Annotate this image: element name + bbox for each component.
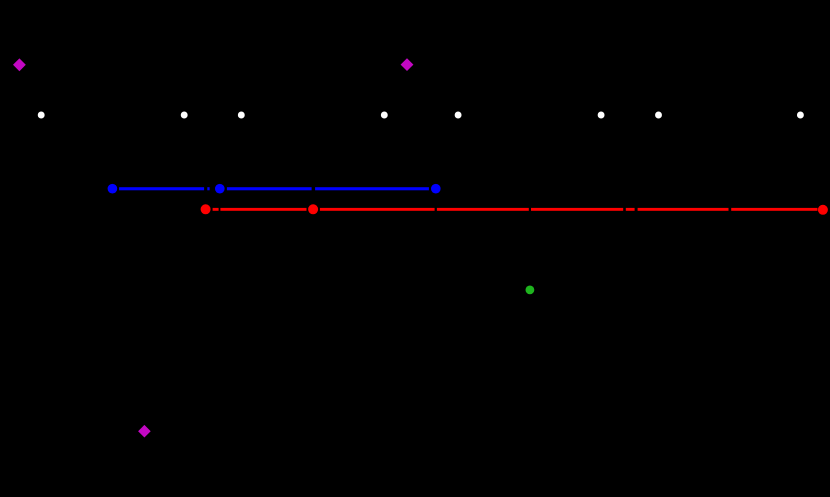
magenta diamond marker D2 top-middle bbox=[401, 58, 414, 71]
blue line segment B-c bbox=[227, 187, 312, 190]
blue endpoint dot B2 bbox=[215, 184, 225, 194]
white dot W1 bbox=[38, 112, 45, 119]
magenta diamond marker D3 bottom-left bbox=[138, 425, 151, 438]
red line segment R-d bbox=[437, 208, 529, 211]
red line segment R-g bbox=[638, 208, 729, 211]
blue line segment B-d bbox=[315, 187, 429, 190]
white dot W8 bbox=[797, 112, 804, 119]
white dot W3 bbox=[238, 112, 245, 119]
red endpoint dot R1 bbox=[201, 204, 211, 214]
red endpoint dot R2 bbox=[308, 204, 318, 214]
red endpoint dot R3 bbox=[818, 205, 828, 215]
red line segment R-h bbox=[731, 208, 817, 211]
red line segment R-e bbox=[531, 208, 623, 211]
blue line segment B-a bbox=[119, 187, 204, 190]
white dot W7 bbox=[655, 112, 662, 119]
magenta diamond marker D1 top-left bbox=[13, 58, 26, 71]
blue endpoint dot B1 bbox=[108, 184, 118, 194]
white dot W5 bbox=[455, 112, 462, 119]
red short segment R-f bbox=[626, 208, 635, 211]
white dot W6 bbox=[598, 112, 605, 119]
white dot W4 bbox=[381, 112, 388, 119]
white dot W2 bbox=[181, 112, 188, 119]
red line segment R-b bbox=[220, 208, 306, 211]
green dot G1 bbox=[526, 286, 535, 295]
red short dash R-a bbox=[213, 208, 219, 211]
red line segment R-c bbox=[320, 208, 435, 211]
blue endpoint dot B3 bbox=[431, 184, 441, 194]
blue short dash B-b bbox=[207, 187, 209, 190]
